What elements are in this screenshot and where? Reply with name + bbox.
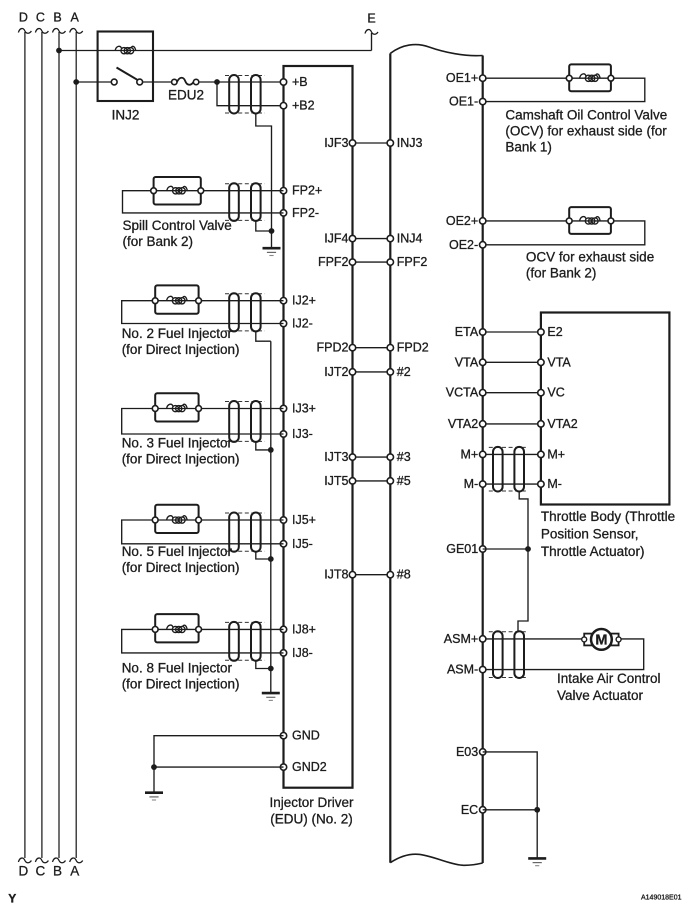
pin VTA on ECU right: [480, 359, 486, 365]
svg-text:IJ8+: IJ8+: [292, 622, 316, 636]
injector 5 internal wire: [155, 519, 198, 521]
pin E03: [480, 749, 486, 755]
wire fuse to +B: [199, 81, 284, 83]
ECU body bottom wavy edge: [390, 854, 482, 865]
OCV1 terminal left: [566, 75, 572, 81]
svg-text:C: C: [36, 11, 45, 25]
shield dashed outline (FP2): [225, 183, 265, 185]
shield ground lead: [271, 231, 273, 248]
pin IJT8 on EDU right: [349, 572, 355, 578]
relay INJ2 box: [98, 32, 153, 102]
svg-text:E2: E2: [547, 325, 562, 339]
wire spill valve return to FP2-: [123, 191, 284, 213]
wire M- to throttle M-: [483, 483, 541, 485]
shield drain bus vertical: [270, 341, 272, 693]
shield drain wire +B pair: [256, 113, 272, 231]
pin FP2- on EDU: [280, 210, 286, 216]
twisted/shielded pair (+B/+B2) loop 2: [251, 75, 261, 114]
wire ASM+ to motor: [483, 638, 583, 640]
pin IJ2+ on EDU: [280, 298, 286, 304]
spill valve internal wire: [154, 190, 201, 192]
fuel injector 2 coil: [167, 296, 188, 304]
svg-text:IJ2+: IJ2+: [292, 294, 316, 308]
wire OE2+ to OCV2 coil: [483, 220, 570, 222]
pin GND2 on EDU: [280, 764, 286, 770]
wire M+ to throttle M+: [483, 453, 541, 455]
OCV2 terminal left: [566, 218, 572, 224]
wire injector 3 to IJ3+: [202, 408, 284, 410]
svg-text:FP2+: FP2+: [292, 184, 322, 198]
svg-text:(for Bank 2): (for Bank 2): [526, 265, 597, 280]
pin IJ3+ on EDU: [280, 405, 286, 411]
break symbol bottom of line C: [35, 858, 48, 863]
pin IJ2- on EDU: [280, 320, 286, 326]
svg-text:M: M: [595, 632, 607, 648]
wire IJT3 to #3: [353, 456, 391, 458]
fuel injector 5 coil box: [155, 505, 198, 533]
svg-text:M+: M+: [547, 447, 565, 461]
wire IJT5 to #5: [353, 480, 391, 482]
fuel injector 8 coil box: [155, 614, 198, 642]
svg-text:IJ2-: IJ2-: [292, 317, 313, 331]
wire from relay coil to node E: [153, 50, 372, 52]
motor M1 brush right: [609, 634, 619, 646]
spill valve terminal left: [151, 188, 157, 194]
svg-text:VTA: VTA: [455, 355, 479, 369]
pin +B2 on EDU: [280, 103, 286, 109]
shield dashed outline (IJ3): [225, 401, 265, 403]
motor M1 brush left: [584, 634, 594, 646]
wire bus A to relay switch: [76, 81, 112, 83]
twisted/shielded pair (IJ5) loop 2: [251, 513, 261, 552]
pin OE1+: [480, 75, 486, 81]
fuse EDU2 right terminal: [193, 79, 198, 84]
break symbol top of line A: [70, 29, 83, 34]
fuel injector 5 coil: [167, 516, 188, 524]
OCV2 internal wire: [569, 220, 611, 222]
pin INJ4 on ECU left: [387, 235, 393, 241]
svg-text:No. 3 Fuel Injector: No. 3 Fuel Injector: [122, 436, 233, 451]
ground symbol GND (chassis): [145, 791, 163, 794]
camshaft OCV coil: [580, 74, 601, 82]
pin VTA2 on throttle body: [538, 421, 544, 427]
svg-text:M+: M+: [460, 447, 478, 461]
wire bus B to relay coil: [59, 50, 98, 52]
svg-text:Throttle Body (Throttle: Throttle Body (Throttle: [541, 509, 675, 524]
junction dot on line B: [56, 48, 62, 54]
svg-text:D: D: [19, 864, 29, 879]
svg-text:(for Bank 2): (for Bank 2): [123, 234, 194, 249]
svg-text:FPD2: FPD2: [317, 341, 349, 355]
junction dot GND2: [151, 764, 157, 770]
svg-text:EC: EC: [461, 803, 478, 817]
junction dot drain IJ8: [268, 666, 274, 672]
svg-text:IJ8-: IJ8-: [292, 646, 313, 660]
svg-text:+B2: +B2: [292, 99, 315, 113]
wire bus line C (vertical): [41, 32, 43, 858]
svg-text:FP2-: FP2-: [292, 206, 319, 220]
twisted/shielded pair (M+/M-) loop 1: [493, 447, 503, 492]
pin ASM+: [480, 636, 486, 642]
ECU body left edge: [389, 53, 391, 862]
relay INJ2 switch wire right: [143, 81, 172, 83]
pin IJT3 on EDU right: [349, 454, 355, 460]
svg-text:ASM+: ASM+: [444, 632, 478, 646]
twisted/shielded pair (M+/M-) loop 2: [514, 447, 524, 492]
break symbol top of line C: [35, 29, 48, 34]
svg-text:FPF2: FPF2: [318, 255, 349, 269]
OCV2 terminal right: [608, 218, 614, 224]
relay INJ2 coil wire: [98, 50, 153, 52]
pin IJ8+ on EDU: [280, 626, 286, 632]
injector 3 terminal right: [196, 406, 202, 412]
svg-text:Injector Driver: Injector Driver: [269, 795, 354, 810]
pin +B on EDU: [280, 79, 286, 85]
shield dashed outline (IJ5): [225, 512, 265, 514]
twisted/shielded pair (+B/+B2) loop 1: [229, 75, 239, 114]
wire spill valve to FP2+: [204, 190, 284, 192]
svg-text:(for Direct Injection): (for Direct Injection): [122, 560, 240, 575]
wire FPF2 to FPF2: [353, 261, 391, 263]
svg-text:Y: Y: [8, 892, 16, 906]
pin #5 on ECU left: [387, 478, 393, 484]
relay INJ2 switch blade: [117, 68, 139, 81]
injector 2 internal wire: [155, 300, 198, 302]
injector 2 terminal right: [196, 298, 202, 304]
pin ETA on ECU right: [480, 329, 486, 335]
pin IJT5 on EDU right: [349, 478, 355, 484]
break symbol bottom of line A: [70, 858, 83, 863]
OCV1 internal wire: [569, 77, 611, 79]
svg-text:D: D: [19, 11, 28, 25]
svg-text:VC: VC: [547, 386, 564, 400]
pin IJ8- on EDU: [280, 650, 286, 656]
svg-text:FPD2: FPD2: [397, 341, 429, 355]
svg-text:Position Sensor,: Position Sensor,: [541, 527, 639, 542]
wire GE01 to shield: [483, 548, 528, 550]
svg-text:IJ5-: IJ5-: [292, 537, 313, 551]
OCV1 terminal right: [608, 75, 614, 81]
wire injector 2 return to IJ2-: [122, 301, 284, 324]
pin M- on throttle body: [538, 481, 544, 487]
svg-text:(EDU) (No. 2): (EDU) (No. 2): [270, 812, 353, 827]
wire IJF3 to INJ3: [353, 142, 391, 144]
wire to +B2: [217, 82, 284, 106]
wire OCV1 return to OE1-: [483, 78, 645, 101]
wire bus line A (vertical): [75, 32, 77, 858]
injector 5 terminal left: [152, 517, 158, 523]
pin ASM-: [480, 666, 486, 672]
svg-text:OE1-: OE1-: [449, 95, 478, 109]
fuel injector 3 coil box: [155, 393, 198, 421]
svg-text:GND: GND: [292, 729, 320, 743]
relay INJ2 switch contact left: [111, 79, 117, 85]
svg-text:INJ2: INJ2: [112, 108, 140, 123]
pin VC on throttle body: [538, 390, 544, 396]
svg-text:M-: M-: [547, 477, 562, 491]
svg-text:FPF2: FPF2: [397, 255, 428, 269]
svg-text:Camshaft Oil Control Valve: Camshaft Oil Control Valve: [505, 108, 667, 123]
junction dot after fuse: [214, 79, 220, 85]
break symbol node E: [365, 30, 378, 35]
svg-text:IJF3: IJF3: [324, 136, 348, 150]
svg-text:M-: M-: [464, 477, 479, 491]
twisted/shielded pair (FP2) loop 1: [229, 183, 239, 221]
ground symbol below injector 8: [262, 692, 280, 695]
break symbol bottom of line B: [53, 858, 66, 863]
injector 5 terminal right: [196, 517, 202, 523]
shield dashed outline (+B/+B2): [225, 75, 265, 77]
svg-text:#5: #5: [397, 474, 411, 488]
pin FPF2 on ECU left: [387, 259, 393, 265]
pin OE2-: [480, 242, 486, 248]
svg-text:IJ3+: IJ3+: [292, 402, 316, 416]
wire injector 5 to IJ5+: [202, 519, 284, 521]
svg-text:IJT3: IJT3: [324, 450, 348, 464]
fuel injector 3 coil: [167, 404, 188, 412]
shield dashed outline (M+/M-): [489, 446, 528, 448]
camshaft OCV coil box U-OCV1: [569, 64, 611, 91]
junction dot shield drains: [269, 228, 275, 234]
pin #8 on ECU left: [387, 572, 393, 578]
shield dashed outline (IJ2): [225, 293, 265, 295]
pin VCTA on ECU right: [480, 390, 486, 396]
pin M+ on ECU right: [480, 451, 486, 457]
pin IJF3 on EDU right: [349, 140, 355, 146]
injector 3 terminal left: [152, 406, 158, 412]
ECU body right edge: [482, 56, 484, 864]
shield drain wire IJ8 pair: [256, 660, 271, 668]
pin FP2+ on EDU: [280, 188, 286, 194]
pin VTA2 on ECU right: [480, 421, 486, 427]
svg-text:Valve Actuator: Valve Actuator: [557, 688, 644, 703]
wire motor return to ASM-: [483, 639, 644, 670]
svg-text:#8: #8: [397, 568, 411, 582]
OCV2 coil: [580, 217, 601, 225]
pin GND on EDU: [280, 733, 286, 739]
pin #2 on ECU left: [387, 369, 393, 375]
fuel injector 8 coil: [167, 625, 188, 633]
wire EC to ground bus: [483, 809, 538, 811]
injector driver EDU box: [284, 66, 353, 788]
svg-text:#2: #2: [397, 365, 411, 379]
motor M1 body: [591, 629, 612, 650]
svg-text:VTA2: VTA2: [448, 417, 478, 431]
svg-text:(OCV) for exhaust side (for: (OCV) for exhaust side (for: [505, 124, 667, 139]
svg-text:INJ4: INJ4: [397, 232, 423, 246]
twisted/shielded pair (IJ3) loop 1: [229, 401, 239, 442]
spill control valve coil box: [154, 177, 201, 205]
svg-text:B: B: [53, 864, 62, 879]
wire injector 2 to IJ2+: [202, 300, 284, 302]
twisted/shielded pair (IJ8) loop 2: [251, 622, 261, 661]
injector 8 terminal right: [196, 627, 202, 633]
svg-text:OE2+: OE2+: [446, 214, 478, 228]
wire bus line B (vertical): [58, 32, 60, 858]
svg-text:No. 5 Fuel Injector: No. 5 Fuel Injector: [122, 544, 233, 559]
junction dot drain IJ3: [268, 447, 274, 453]
twisted/shielded pair (IJ3) loop 2: [251, 401, 261, 442]
pin VTA on throttle body: [538, 359, 544, 365]
svg-text:A: A: [71, 11, 80, 25]
shield dashed outline (ASM): [489, 631, 528, 633]
wire GND2: [154, 766, 284, 768]
svg-text:IJT8: IJT8: [324, 568, 348, 582]
injector 8 terminal left: [152, 627, 158, 633]
relay INJ2 coil: [115, 46, 136, 54]
twisted/shielded pair (ASM) loop 1: [493, 631, 503, 678]
svg-text:Intake Air Control: Intake Air Control: [557, 671, 661, 686]
pin IJ3- on EDU: [280, 431, 286, 437]
wire OCV2 return to OE2-: [483, 221, 645, 245]
svg-text:GE01: GE01: [446, 542, 478, 556]
pin EC: [480, 807, 486, 813]
twisted/shielded pair (IJ5) loop 1: [229, 513, 239, 552]
svg-text:(for Direct Injection): (for Direct Injection): [122, 452, 240, 467]
fuse EDU2 element: [177, 78, 193, 85]
svg-text:#3: #3: [397, 450, 411, 464]
wire VCTA to throttle VC: [483, 392, 541, 394]
twisted/shielded pair (ASM) loop 2: [514, 631, 524, 678]
svg-text:B: B: [53, 11, 61, 25]
break symbol bottom of line D: [18, 858, 31, 863]
wire ETA to throttle E2: [483, 331, 541, 333]
injector 2 terminal left: [152, 298, 158, 304]
injector 8 internal wire: [155, 628, 198, 630]
pin #3 on ECU left: [387, 454, 393, 460]
twisted/shielded pair (FP2) loop 2: [251, 183, 261, 221]
svg-text:E: E: [367, 12, 375, 26]
shield drain wire IJ2 pair: [256, 331, 271, 341]
shield dashed outline (IJ8): [225, 621, 265, 623]
wire injector 5 return to IJ5-: [122, 520, 284, 544]
pin M- on ECU right: [480, 481, 486, 487]
pin INJ3 on ECU left: [387, 140, 393, 146]
pin OE2+: [480, 218, 486, 224]
junction dot on line A: [73, 79, 79, 85]
pin IJT2 on EDU right: [349, 369, 355, 375]
wire IJT8 to #8: [353, 574, 391, 576]
throttle body box: [541, 313, 670, 505]
shield drain wire IJ5 pair: [256, 551, 271, 559]
svg-text:Throttle Actuator): Throttle Actuator): [541, 544, 645, 559]
svg-text:Bank 1): Bank 1): [505, 140, 552, 155]
wire IJF4 to INJ4: [353, 238, 391, 240]
wire injector 3 return to IJ3-: [122, 409, 284, 435]
shield drain wire IJ3 pair: [256, 441, 271, 450]
svg-text:IJT2: IJT2: [324, 365, 348, 379]
junction dot GE01 shield: [525, 546, 531, 552]
svg-text:A149018E01: A149018E01: [641, 895, 682, 902]
svg-text:ASM-: ASM-: [447, 663, 478, 677]
spill valve terminal right: [198, 188, 204, 194]
svg-text:IJF4: IJF4: [324, 232, 348, 246]
svg-text:IJ3-: IJ3-: [292, 427, 313, 441]
fuse EDU2 left terminal: [172, 79, 177, 84]
svg-text:OE2-: OE2-: [449, 238, 478, 252]
junction dot EC ground: [534, 807, 540, 813]
pin IJ5- on EDU: [280, 541, 286, 547]
twisted/shielded pair (IJ2) loop 1: [229, 293, 239, 331]
pin FPD2 on ECU left: [387, 345, 393, 351]
fuel injector 2 coil box: [155, 285, 198, 313]
junction dot drain IJ5: [268, 556, 274, 562]
wire injector 8 return to IJ8-: [122, 629, 284, 653]
svg-text:(for Direct Injection): (for Direct Injection): [122, 342, 240, 357]
svg-text:No. 2 Fuel Injector: No. 2 Fuel Injector: [122, 326, 233, 341]
spill control valve coil: [167, 186, 188, 194]
svg-text:VTA: VTA: [547, 355, 571, 369]
svg-text:IJT5: IJT5: [324, 474, 348, 488]
wire VTA to throttle VTA: [483, 361, 541, 363]
svg-text:C: C: [36, 864, 46, 879]
ground lead EC: [536, 810, 538, 859]
shield drain wire FP2 pair: [256, 220, 272, 231]
motor M1 terminal right: [616, 637, 621, 642]
wire IJT2 to #2: [353, 371, 391, 373]
injector 3 internal wire: [155, 408, 198, 410]
ground lead GND: [153, 767, 155, 793]
ground symbol near FP2: [263, 247, 281, 250]
wire GND to ground: [154, 736, 284, 767]
svg-text:ETA: ETA: [455, 325, 479, 339]
motor M1 terminal left: [582, 637, 587, 642]
wire VTA2 to throttle VTA2: [483, 423, 541, 425]
svg-text:OCV for exhaust side: OCV for exhaust side: [526, 249, 654, 264]
wire OE1+ to OCV coil: [483, 77, 570, 79]
pin FPF2 on EDU right: [349, 259, 355, 265]
svg-text:IJ5+: IJ5+: [292, 513, 316, 527]
relay INJ2 switch contact right: [137, 79, 143, 85]
svg-text:E03: E03: [456, 745, 478, 759]
OCV2 coil box: [569, 207, 611, 234]
svg-text:GND2: GND2: [292, 760, 327, 774]
pin M+ on throttle body: [538, 451, 544, 457]
pin IJ5+ on EDU: [280, 517, 286, 523]
twisted/shielded pair (IJ8) loop 1: [229, 622, 239, 661]
pin GE01: [480, 546, 486, 552]
svg-text:Spill Control Valve: Spill Control Valve: [123, 218, 232, 233]
wire injector 8 to IJ8+: [202, 628, 284, 630]
pin OE1-: [480, 98, 486, 104]
wire FPD2 to FPD2: [353, 347, 391, 349]
pin IJF4 on EDU right: [349, 235, 355, 241]
pin FPD2 on EDU right: [349, 345, 355, 351]
svg-text:(for Direct Injection): (for Direct Injection): [122, 677, 240, 692]
break symbol top of line B: [53, 29, 66, 34]
svg-text:+B: +B: [292, 75, 308, 89]
ground symbol EC (chassis): [528, 857, 546, 860]
break symbol top of line D: [18, 29, 31, 34]
pin E2 on throttle body: [538, 329, 544, 335]
svg-text:No. 8 Fuel Injector: No. 8 Fuel Injector: [122, 661, 233, 676]
node E lead: [371, 33, 373, 51]
ECU body top wavy edge: [390, 45, 482, 56]
wire bus line D (vertical): [24, 32, 26, 858]
shield drain wire M pair to GE01: [518, 491, 528, 631]
svg-text:EDU2: EDU2: [168, 88, 204, 103]
wire E03 to ground bus: [483, 752, 538, 810]
twisted/shielded pair (IJ2) loop 2: [251, 293, 261, 331]
svg-text:VCTA: VCTA: [446, 386, 479, 400]
svg-text:A: A: [70, 864, 79, 879]
svg-text:VTA2: VTA2: [547, 417, 577, 431]
svg-text:INJ3: INJ3: [397, 136, 423, 150]
svg-text:OE1+: OE1+: [446, 71, 478, 85]
